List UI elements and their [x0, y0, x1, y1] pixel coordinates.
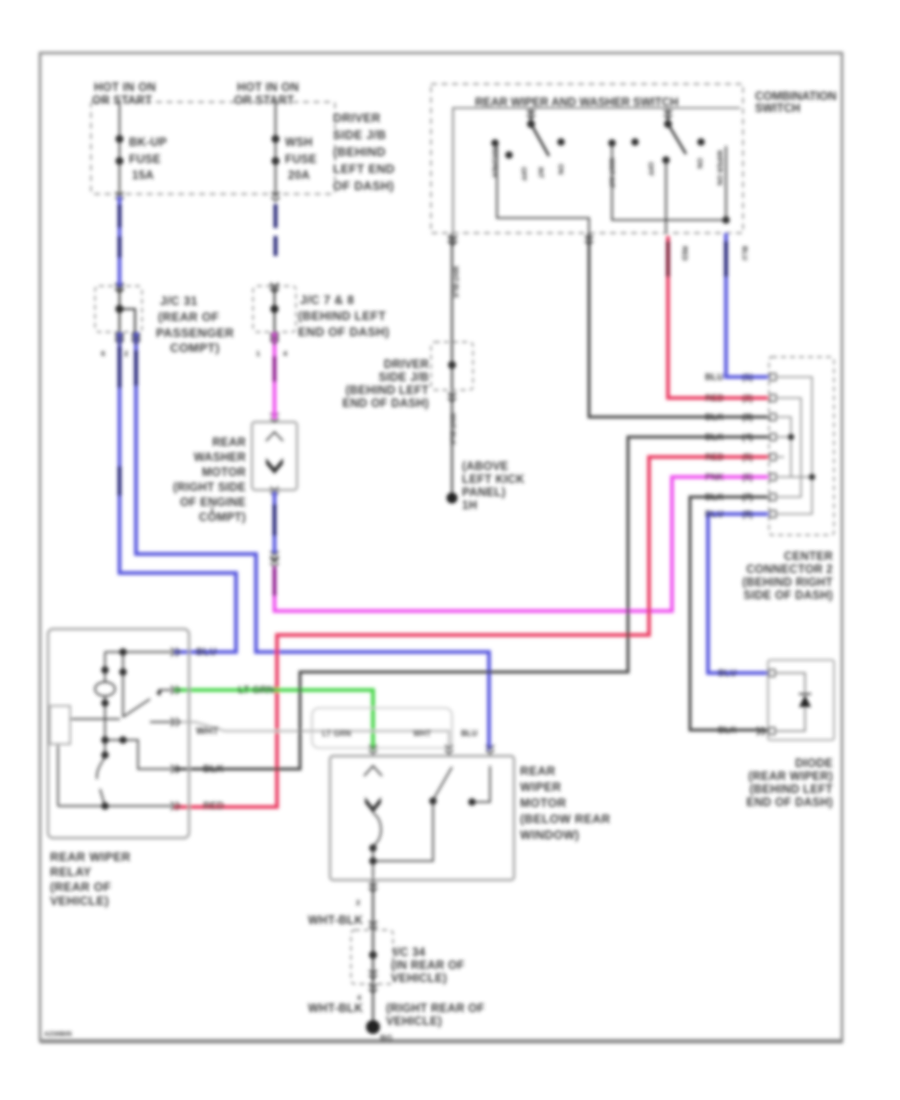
svg-text:BLK: BLK [705, 412, 724, 422]
svg-text:END OF DASH): END OF DASH) [746, 797, 833, 809]
svg-text:REAR WIPER: REAR WIPER [50, 850, 131, 864]
svg-text:1: 1 [256, 349, 260, 358]
svg-text:END OF DASH): END OF DASH) [298, 325, 389, 339]
svg-text:WHT: WHT [413, 729, 431, 738]
svg-text:OFF: OFF [647, 162, 654, 177]
svg-text:MOTOR: MOTOR [520, 796, 566, 810]
svg-text:WINDOW): WINDOW) [520, 828, 579, 842]
svg-text:(3): (3) [742, 412, 753, 422]
svg-text:PASSENGER: PASSENGER [156, 326, 234, 340]
svg-text:(REAR OF: (REAR OF [50, 880, 111, 894]
svg-text:J/C 7 & 8: J/C 7 & 8 [300, 293, 354, 307]
svg-text:OR START: OR START [234, 95, 294, 107]
svg-text:(7): (7) [742, 492, 753, 502]
svg-text:SWITCH: SWITCH [755, 103, 800, 115]
svg-text:I/C 34: I/C 34 [393, 947, 426, 959]
svg-text:BG: BG [380, 1033, 393, 1043]
svg-text:MOTOR: MOTOR [202, 467, 246, 479]
svg-text:VEHICLE): VEHICLE) [386, 1016, 442, 1028]
svg-text:REAR: REAR [212, 437, 246, 449]
svg-text:RED: RED [203, 801, 224, 812]
svg-text:(BEHIND LEFT: (BEHIND LEFT [750, 784, 833, 796]
svg-text:DRIVER: DRIVER [384, 359, 430, 371]
svg-text:(5): (5) [742, 452, 753, 462]
svg-text:WASHER: WASHER [491, 147, 498, 178]
svg-text:HOT IN ON: HOT IN ON [237, 82, 299, 94]
svg-text:CENTER: CENTER [784, 551, 833, 563]
svg-text:FUSE: FUSE [285, 154, 317, 166]
svg-text:RELAY: RELAY [50, 865, 92, 879]
svg-text:OR START: OR START [92, 95, 152, 107]
svg-text:BK-UP: BK-UP [129, 137, 167, 149]
svg-text:1: 1 [210, 505, 214, 514]
svg-text:VEHICLE): VEHICLE) [391, 973, 447, 985]
svg-text:DRIVER: DRIVER [333, 111, 381, 125]
svg-text:COMPT): COMPT) [170, 341, 220, 355]
svg-text:BLK: BLK [705, 432, 724, 442]
svg-text:(BEHIND RIGHT: (BEHIND RIGHT [742, 577, 833, 589]
svg-text:BLK: BLK [705, 492, 724, 502]
svg-text:20A: 20A [288, 170, 310, 182]
svg-text:OFF: OFF [520, 167, 527, 182]
svg-text:HOT IN ON: HOT IN ON [94, 82, 156, 94]
svg-text:(BEHIND LEFT: (BEHIND LEFT [298, 309, 386, 323]
svg-text:BLU: BLU [718, 668, 737, 678]
svg-text:AZ30B05: AZ30B05 [44, 1031, 72, 1038]
svg-text:BLK: BLK [203, 764, 224, 775]
svg-text:(REAR WIPER): (REAR WIPER) [748, 771, 833, 783]
svg-text:LEFT KICK: LEFT KICK [462, 474, 525, 486]
svg-text:INT: INT [537, 167, 544, 179]
svg-text:(1): (1) [742, 372, 753, 382]
svg-text:REAR: REAR [520, 764, 556, 778]
svg-text:BLU: BLU [705, 509, 724, 519]
svg-text:WIPER ON: WIPER ON [716, 150, 723, 185]
svg-text:SIDE J/B: SIDE J/B [333, 128, 386, 142]
svg-text:COMBINATION: COMBINATION [755, 91, 837, 103]
svg-text:PANEL): PANEL) [462, 487, 506, 499]
svg-text:CONNECTOR 2: CONNECTOR 2 [746, 564, 833, 576]
svg-text:BLU: BLU [196, 647, 217, 658]
svg-text:RED: RED [705, 393, 725, 403]
svg-text:15A: 15A [132, 170, 154, 182]
svg-text:RED: RED [705, 452, 725, 462]
svg-text:LT GRN: LT GRN [322, 729, 351, 738]
svg-text:(8): (8) [742, 509, 753, 519]
svg-text:WHT-BLK: WHT-BLK [308, 1003, 364, 1015]
svg-text:4: 4 [357, 993, 362, 1002]
svg-text:DIODE: DIODE [795, 758, 833, 770]
svg-text:BLU: BLU [705, 372, 724, 382]
svg-text:ON: ON [557, 164, 564, 175]
svg-text:ON: ON [696, 158, 703, 169]
svg-text:1H: 1H [462, 500, 477, 512]
svg-text:WIPER: WIPER [520, 780, 561, 794]
svg-text:(REAR OF: (REAR OF [158, 310, 219, 324]
svg-text:(6): (6) [742, 472, 753, 482]
svg-text:(IN REAR OF: (IN REAR OF [391, 960, 465, 972]
svg-text:LT GRN: LT GRN [238, 685, 274, 696]
svg-text:WHT-BLK: WHT-BLK [308, 915, 364, 927]
svg-text:6: 6 [101, 349, 105, 358]
svg-text:2: 2 [356, 898, 360, 907]
svg-text:(ABOVE: (ABOVE [462, 461, 509, 473]
svg-text:BLK: BLK [718, 725, 737, 735]
svg-text:2: 2 [124, 349, 128, 358]
svg-text:(4): (4) [742, 432, 753, 442]
svg-text:(RIGHT SIDE: (RIGHT SIDE [173, 482, 246, 494]
svg-text:(RIGHT REAR OF: (RIGHT REAR OF [386, 1003, 485, 1015]
svg-text:PNK: PNK [705, 472, 725, 482]
svg-text:VEHICLE): VEHICLE) [50, 894, 109, 908]
svg-text:(BEHIND LEFT: (BEHIND LEFT [346, 385, 429, 397]
svg-text:(2): (2) [742, 393, 753, 403]
svg-text:RED: RED [681, 246, 688, 261]
svg-text:BLU: BLU [461, 729, 478, 738]
svg-text:OF DASH): OF DASH) [333, 179, 394, 193]
svg-text:LEFT END: LEFT END [333, 162, 395, 176]
svg-text:BLU: BLU [741, 246, 748, 260]
svg-text:MIST INT: MIST INT [608, 158, 615, 189]
svg-text:SIDE OF DASH): SIDE OF DASH) [743, 590, 833, 602]
svg-text:SIDE J/B: SIDE J/B [379, 372, 429, 384]
svg-text:WASHER: WASHER [194, 452, 247, 464]
svg-text:WSH: WSH [285, 137, 313, 149]
svg-text:WHT-BLK: WHT-BLK [449, 413, 456, 445]
svg-text:WHT: WHT [196, 726, 219, 737]
svg-text:WHT-BLK: WHT-BLK [452, 266, 459, 298]
svg-text:END OF DASH): END OF DASH) [342, 398, 429, 410]
svg-text:FUSE: FUSE [129, 154, 161, 166]
svg-text:J/C 31: J/C 31 [160, 294, 198, 308]
svg-text:(BEHIND: (BEHIND [333, 145, 386, 159]
svg-text:(BELOW REAR: (BELOW REAR [520, 812, 610, 826]
svg-text:4: 4 [283, 349, 288, 358]
svg-text:COMPT): COMPT) [199, 512, 246, 524]
